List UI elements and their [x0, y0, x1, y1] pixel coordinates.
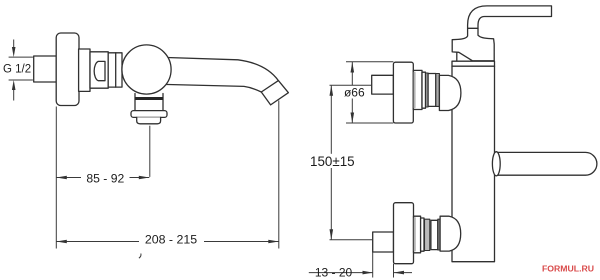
svg-text:FORMUL.RU: FORMUL.RU: [542, 263, 594, 273]
svg-text:85 - 92: 85 - 92: [86, 171, 124, 185]
svg-text:208 - 215: 208 - 215: [145, 233, 197, 247]
svg-text:G 1/2: G 1/2: [3, 64, 31, 76]
svg-text:150±15: 150±15: [310, 154, 355, 169]
svg-text:13 - 20: 13 - 20: [315, 265, 353, 279]
svg-text:ø66: ø66: [344, 85, 365, 99]
